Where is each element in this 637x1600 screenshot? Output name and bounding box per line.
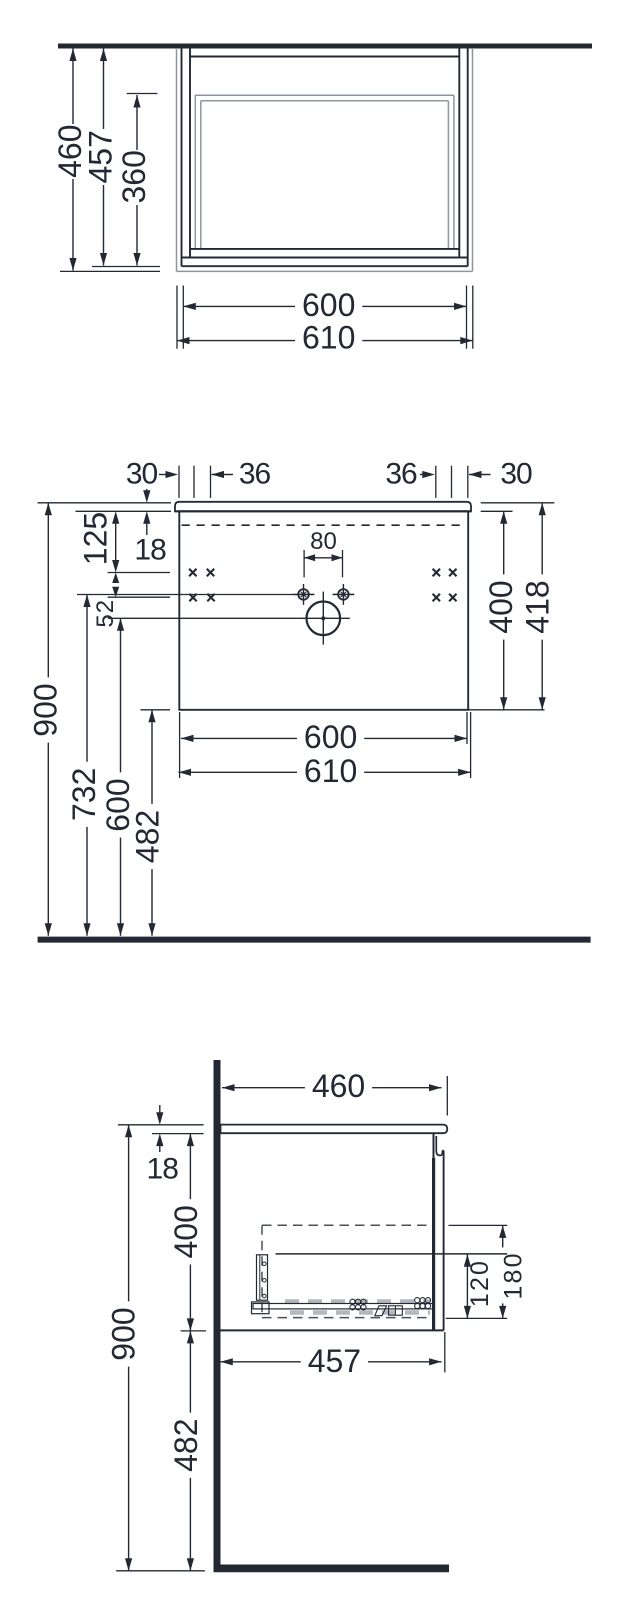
svg-text:36: 36 xyxy=(385,458,417,491)
svg-text:180: 180 xyxy=(500,1251,528,1299)
svg-text:457: 457 xyxy=(308,1343,361,1379)
svg-text:418: 418 xyxy=(519,580,555,633)
svg-text:400: 400 xyxy=(483,580,519,633)
svg-text:30: 30 xyxy=(126,458,158,491)
svg-text:600: 600 xyxy=(304,719,357,755)
svg-text:18: 18 xyxy=(147,1153,179,1186)
svg-text:460: 460 xyxy=(312,1068,365,1104)
svg-text:482: 482 xyxy=(168,1419,204,1472)
svg-text:18: 18 xyxy=(134,534,166,567)
svg-text:900: 900 xyxy=(105,1307,141,1360)
svg-text:360: 360 xyxy=(116,150,152,203)
svg-text:30: 30 xyxy=(500,458,532,491)
svg-text:600: 600 xyxy=(302,287,355,323)
svg-text:732: 732 xyxy=(66,768,102,821)
svg-text:120: 120 xyxy=(466,1259,494,1307)
svg-text:610: 610 xyxy=(304,753,357,789)
svg-text:457: 457 xyxy=(83,130,119,183)
svg-text:900: 900 xyxy=(27,683,63,736)
svg-text:482: 482 xyxy=(130,810,166,863)
svg-text:52: 52 xyxy=(92,599,119,628)
svg-text:610: 610 xyxy=(302,320,355,356)
svg-text:36: 36 xyxy=(239,458,271,491)
svg-text:400: 400 xyxy=(168,1205,204,1258)
svg-text:80: 80 xyxy=(310,528,337,555)
svg-text:125: 125 xyxy=(77,512,113,565)
